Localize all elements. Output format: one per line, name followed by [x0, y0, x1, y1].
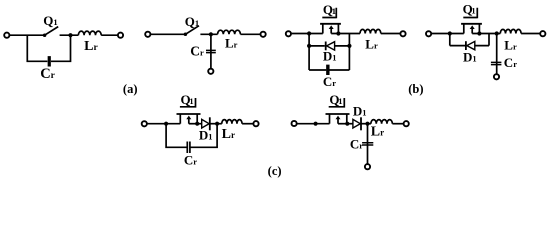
inductor Lr C1 [222, 120, 242, 124]
diode D1 B2 [466, 41, 475, 50]
node B1 diode left [307, 44, 311, 48]
wire A2 output [240, 33, 260, 35]
node C1 source [195, 122, 199, 126]
switch Q1 contact [43, 33, 47, 37]
wire A1 mid [60, 34, 79, 36]
wire C2 mid [338, 123, 353, 125]
terminal right A2 [261, 32, 266, 37]
svg-text:(a): (a) [123, 82, 138, 96]
wire B2 diode verticals [450, 34, 489, 46]
wire B1 output [381, 33, 400, 35]
terminal right C2 [404, 121, 409, 126]
wire B1 mid [331, 33, 360, 35]
inductor Lr A1 [78, 31, 101, 35]
node C1 right [215, 122, 219, 126]
mosfet Q1 C1 [177, 98, 201, 124]
capacitor Cr A2 [206, 50, 216, 52]
terminal right B2 [540, 31, 545, 36]
svg-text:Lr: Lr [371, 125, 384, 140]
switch Q1 contact A2 [184, 33, 188, 37]
svg-text:Lr: Lr [222, 127, 235, 142]
switch Q1 blade A2 [185, 26, 199, 35]
node B2 mid [495, 31, 499, 35]
terminal bottom A2 [208, 69, 213, 74]
svg-text:(c): (c) [268, 164, 282, 178]
wire C2 after diode [361, 123, 371, 125]
capacitor Cr B1 [327, 65, 329, 75]
capacitor Cr B2 [491, 62, 502, 64]
node B2 source [477, 31, 481, 35]
node C2 source [345, 122, 349, 126]
wire C2 input [297, 123, 330, 125]
node A2 [209, 32, 213, 36]
terminal bottom B2 [494, 74, 499, 79]
wire A1 output [101, 34, 117, 36]
svg-text:(b): (b) [408, 82, 423, 96]
wire A1 branch left [27, 35, 47, 61]
node C2 right [365, 122, 369, 126]
node A1 [68, 33, 72, 37]
inductor Lr A2 [218, 30, 241, 34]
wire A1 branch right [51, 35, 71, 61]
wire C2 down [367, 124, 369, 164]
diode D1 B1 [326, 42, 335, 51]
wire A2 down [210, 34, 212, 68]
capacitor Cr A1 [49, 56, 51, 66]
mosfet Q1 C2 [326, 98, 350, 124]
wire A1 input [10, 34, 45, 36]
wire B1 left vertical [308, 34, 310, 71]
node C1 left [164, 122, 168, 126]
node B1 diode right [347, 44, 351, 48]
wire C1 after diode [210, 123, 222, 125]
wire C2 output [392, 123, 403, 125]
wire C1 input [147, 123, 180, 125]
terminal left A1 [4, 33, 9, 38]
wire B2 output [521, 33, 540, 35]
wire A2 input [151, 33, 186, 35]
terminal bottom C2 [365, 164, 370, 169]
wire B1 cap branch [309, 69, 349, 71]
wire C1 mid [189, 123, 202, 125]
node B2 left [448, 31, 452, 35]
wire B2 down [496, 34, 498, 74]
wire A2 mid [200, 33, 217, 35]
inductor Lr C2 [371, 120, 392, 124]
terminal right B1 [400, 31, 405, 36]
diode D1 C2 [353, 117, 361, 130]
node C2 left [314, 122, 318, 126]
wire B2 mid [472, 33, 500, 35]
terminal right C1 [253, 121, 258, 126]
wire C1 cap branch [166, 124, 217, 148]
wire B1 diode branch [309, 45, 349, 47]
wire C1 output [242, 123, 253, 125]
node B1 source [336, 31, 340, 35]
switch Q1 blade [45, 27, 59, 36]
terminal left A2 [145, 32, 150, 37]
mosfet Q1 B2 [461, 8, 482, 34]
terminal right A1 [118, 33, 123, 38]
terminal left C2 [292, 121, 297, 126]
terminal left C1 [142, 121, 147, 126]
capacitor Cr C1 [187, 142, 190, 154]
diode D1 C1 [202, 117, 210, 130]
wire B1 right vertical [348, 34, 350, 71]
inductor Lr B2 [500, 29, 521, 33]
wire B1 input [292, 33, 323, 35]
mosfet Q1 B1 [320, 8, 341, 34]
capacitor Cr C2 [362, 143, 373, 145]
wire B2 diode branch [450, 45, 489, 47]
wire B2 input [431, 33, 464, 35]
terminal left B2 [426, 31, 431, 36]
node B1 left [307, 31, 311, 35]
terminal left B1 [286, 31, 291, 36]
inductor Lr B1 [360, 29, 381, 33]
